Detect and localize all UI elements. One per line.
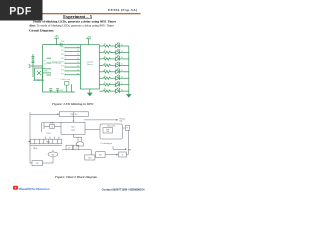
bus wire right bbox=[128, 46, 130, 94]
capacitor C4 stub to gnd bbox=[49, 89, 52, 93]
svg-text:TMOD: TMOD bbox=[46, 142, 50, 144]
capacitor C2 stub bbox=[29, 65, 31, 68]
power +5V right bbox=[86, 39, 91, 45]
svg-text:R7: R7 bbox=[104, 82, 106, 84]
port wires P1.0-P1.7 bbox=[65, 48, 81, 75]
wire lower run bbox=[62, 150, 92, 155]
wire crystal node bbox=[29, 65, 43, 67]
svg-text:Current: Current bbox=[86, 60, 93, 63]
wire timer rect to control bbox=[85, 129, 100, 131]
mcu pin RST stub bbox=[47, 74, 52, 76]
power +5V left bbox=[54, 38, 59, 44]
arrow lower B to C bbox=[105, 154, 117, 156]
svg-text:#NewMGTechSolution: #NewMGTechSolution bbox=[19, 187, 50, 191]
bottom-left box bbox=[32, 161, 43, 166]
mcu pin XTAL1 stub bbox=[47, 57, 52, 59]
svg-text:D4: D4 bbox=[121, 64, 123, 66]
wire flag box down bbox=[127, 130, 129, 154]
flag box TFx bbox=[125, 125, 129, 130]
TMOD cells bbox=[35, 139, 58, 144]
control rounded rect bbox=[100, 124, 123, 139]
svg-text:EE506 (Exp-5A): EE506 (Exp-5A) bbox=[108, 8, 138, 12]
row 4: wire, resistor R4, LED D4 bbox=[99, 62, 129, 67]
svg-text:C/T=0: C/T=0 bbox=[47, 133, 51, 135]
svg-text:Contact 9926771284 / 982699951: Contact 9926771284 / 9826999514 bbox=[102, 187, 145, 191]
capacitor C1 reset bbox=[32, 57, 35, 59]
svg-text:TR0: TR0 bbox=[52, 154, 55, 156]
small box B bbox=[73, 145, 79, 150]
svg-text:8B: 8B bbox=[77, 73, 79, 75]
arrows into TMOD bbox=[46, 137, 60, 139]
LED reference smudges bbox=[121, 44, 123, 91]
header orange rule bbox=[8, 13, 141, 15]
wire xtal to mcu 2 bbox=[43, 72, 51, 74]
wire control to flag box bbox=[123, 127, 126, 129]
capacitor C3 on top rail bbox=[60, 43, 62, 47]
register bar THx TLx bbox=[59, 112, 88, 117]
svg-text:2B: 2B bbox=[77, 50, 79, 52]
crystal X1 box bbox=[35, 68, 43, 80]
wire to register bbox=[30, 113, 58, 115]
mcu pin XTAL2 stub bbox=[47, 62, 52, 64]
svg-text:C/T: C/T bbox=[68, 147, 70, 149]
wire bus to bottom box bbox=[30, 162, 32, 164]
lower box A bbox=[85, 155, 95, 160]
svg-text:10u: 10u bbox=[44, 64, 47, 66]
svg-text:TF0 goes: TF0 goes bbox=[120, 118, 126, 120]
driver ground bbox=[87, 89, 92, 96]
wire left rail bbox=[42, 45, 44, 92]
mcu pin name smudges bbox=[61, 46, 64, 75]
wire crystal bottom bbox=[33, 79, 44, 81]
svg-text:INT0: INT0 bbox=[88, 157, 91, 159]
svg-text:7B: 7B bbox=[77, 69, 79, 71]
svg-text:C3: C3 bbox=[44, 61, 46, 63]
+5V texts bbox=[54, 36, 91, 39]
TMOD register bar bbox=[30, 139, 62, 144]
wire rst drop bbox=[71, 84, 73, 92]
left bus line bbox=[29, 112, 31, 163]
arrowhead bbox=[57, 113, 59, 115]
row 3: wire, resistor R3, LED D3 bbox=[99, 55, 129, 60]
wire top rail bbox=[43, 44, 81, 46]
svg-text:P1.4: P1.4 bbox=[61, 62, 64, 64]
svg-text:P1.3: P1.3 bbox=[61, 58, 64, 60]
timer stage rect bbox=[61, 122, 85, 134]
lower box C bbox=[118, 152, 126, 157]
svg-text:4B: 4B bbox=[77, 58, 79, 60]
wire timer rect down bbox=[74, 134, 82, 137]
svg-text:TR0: TR0 bbox=[106, 131, 109, 133]
svg-text:T0: T0 bbox=[122, 155, 124, 157]
osc divide box wiring bbox=[42, 123, 61, 132]
svg-text:D1: D1 bbox=[121, 44, 123, 46]
svg-text:P1.7: P1.7 bbox=[61, 73, 64, 75]
crystal X1 inner mark bbox=[37, 71, 41, 75]
svg-text:6B: 6B bbox=[77, 66, 79, 68]
svg-text:12MHZ GND: 12MHZ GND bbox=[60, 79, 71, 81]
svg-text:10uF: 10uF bbox=[61, 41, 65, 43]
lower box B bbox=[96, 152, 105, 158]
small box A bbox=[66, 145, 72, 150]
wire xtal to mcu 1 bbox=[43, 68, 51, 70]
title underline bbox=[63, 18, 92, 20]
svg-text:5B: 5B bbox=[77, 62, 79, 64]
ground bus bbox=[126, 94, 131, 97]
svg-text:R2: R2 bbox=[104, 50, 106, 52]
reset branch wire bbox=[32, 54, 34, 77]
divide-by-12 box bbox=[50, 124, 55, 128]
svg-text:D6: D6 bbox=[121, 77, 123, 79]
svg-text:P1.2: P1.2 bbox=[61, 54, 64, 56]
TMOD lower strip bbox=[30, 145, 62, 147]
mcu U1 AT89C51 body bbox=[51, 45, 65, 79]
svg-text:R5: R5 bbox=[104, 69, 106, 71]
svg-text:R6: R6 bbox=[104, 76, 106, 78]
long arrow to TFx bbox=[84, 119, 117, 121]
svg-text:P1.0: P1.0 bbox=[61, 46, 64, 48]
row 5: wire, resistor R5, LED D5 bbox=[99, 68, 129, 73]
svg-text:1B: 1B bbox=[77, 46, 79, 48]
svg-text:+5V: +5V bbox=[87, 37, 92, 39]
svg-text:OSC: OSC bbox=[36, 163, 39, 165]
svg-text:P1.5: P1.5 bbox=[61, 66, 64, 68]
svg-text:Figure: LED blinking in 8051: Figure: LED blinking in 8051 bbox=[52, 102, 94, 106]
footer youtube icon bbox=[13, 186, 18, 190]
svg-text:high: high bbox=[120, 120, 123, 122]
svg-text:R4: R4 bbox=[104, 63, 106, 65]
svg-text:TR0: TR0 bbox=[128, 150, 131, 152]
crystal labels bbox=[44, 41, 65, 92]
resistor value smudges bbox=[104, 44, 106, 91]
svg-text:D2: D2 bbox=[121, 51, 123, 53]
svg-text:+5V: +5V bbox=[54, 36, 59, 38]
svg-text:TF: TF bbox=[127, 127, 129, 129]
svg-text:3B: 3B bbox=[77, 54, 79, 56]
node junction dot bbox=[38, 80, 39, 81]
svg-text:R3: R3 bbox=[104, 56, 106, 58]
svg-text:R8: R8 bbox=[104, 89, 106, 91]
svg-text:D8: D8 bbox=[121, 89, 123, 91]
register bar divider bbox=[73, 112, 75, 117]
wire bottom gnd run bbox=[43, 91, 75, 93]
arrow register to timer rect bbox=[73, 116, 75, 121]
svg-text:Circuit Diagram:: Circuit Diagram: bbox=[29, 29, 54, 33]
row 6: wire, resistor R6, LED D6 bbox=[99, 75, 129, 80]
pin number smudges bbox=[65, 46, 79, 75]
row 7: wire, resistor R7, LED D7 bbox=[99, 81, 129, 86]
svg-text:D7: D7 bbox=[121, 83, 123, 85]
control inner box bbox=[103, 128, 113, 134]
svg-text:P1.6: P1.6 bbox=[61, 69, 64, 71]
svg-text:Experiment – 5: Experiment – 5 bbox=[63, 14, 93, 19]
driver U2 body bbox=[80, 45, 99, 89]
svg-text:P1.1: P1.1 bbox=[61, 50, 64, 52]
capacitor C6 box to gnd bbox=[65, 81, 69, 92]
svg-text:TH0 | TL0: TH0 | TL0 bbox=[70, 114, 77, 116]
resistor R9 ticks bbox=[32, 61, 35, 63]
left arrowhead on bus bbox=[28, 141, 30, 143]
TRx arrow bbox=[112, 146, 114, 149]
driver label bbox=[86, 60, 93, 66]
oval wires bbox=[43, 150, 54, 163]
capacitor C5 stub to gnd bbox=[56, 89, 59, 93]
svg-text:G: G bbox=[75, 147, 76, 149]
svg-text:Figure: Timer 0 Block Diagram: Figure: Timer 0 Block Diagram bbox=[55, 175, 98, 179]
AND gate bbox=[77, 142, 84, 146]
gray text smudges bbox=[33, 114, 131, 165]
row 2: wire, resistor R2, LED D2 bbox=[99, 49, 129, 54]
row 1: wire, resistor R1, LED D1 bbox=[99, 42, 129, 47]
junction dots end of gnd run bbox=[72, 91, 75, 92]
svg-text:R1: R1 bbox=[104, 44, 106, 46]
TRx oval bbox=[48, 152, 58, 157]
gate input lines bbox=[78, 137, 82, 141]
svg-text:PDF: PDF bbox=[9, 5, 32, 17]
svg-text:D5: D5 bbox=[121, 70, 123, 72]
svg-text:Driver: Driver bbox=[87, 63, 93, 66]
svg-text:D3: D3 bbox=[121, 57, 123, 59]
row 8: wire, resistor R8, LED D8 bbox=[99, 88, 129, 93]
PDF badge overlay bbox=[0, 0, 43, 21]
